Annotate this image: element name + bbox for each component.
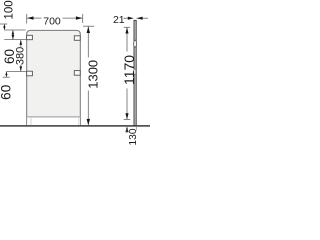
svg-text:1300: 1300 (86, 60, 101, 89)
svg-text:1170: 1170 (121, 55, 137, 85)
svg-text:130: 130 (128, 128, 139, 145)
svg-text:700: 700 (43, 16, 61, 28)
svg-text:60: 60 (0, 85, 13, 100)
svg-text:21: 21 (113, 14, 125, 26)
svg-text:380: 380 (15, 47, 27, 65)
svg-text:100: 100 (3, 0, 15, 19)
